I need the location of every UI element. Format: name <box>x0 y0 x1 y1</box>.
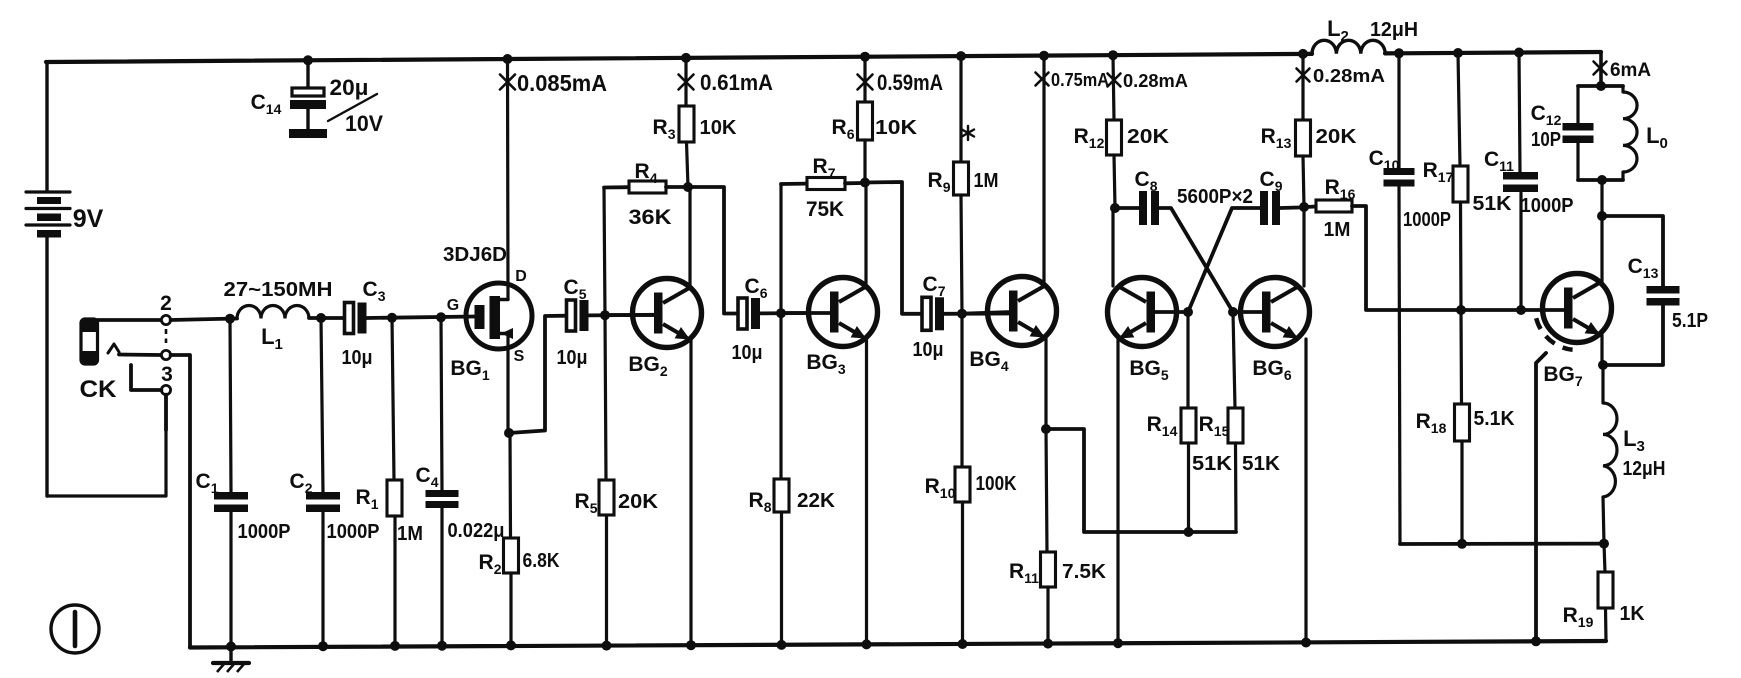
transistor BG4 <box>988 277 1057 346</box>
capacitor C9 5600P <box>1260 191 1268 225</box>
resistor R12 20K <box>1107 55 1122 208</box>
svg-text:1000P: 1000P <box>1403 209 1451 231</box>
jack switch spring contact <box>108 344 119 353</box>
FET BG1 3DJ6D symbol <box>466 283 532 349</box>
wire BG1 source down <box>506 334 509 433</box>
junction L1 left / C1 <box>225 314 235 324</box>
svg-text:10K: 10K <box>700 117 738 139</box>
wire BG4 collector lead <box>1042 56 1045 285</box>
svg-text:5.1P: 5.1P <box>1672 310 1708 332</box>
capacitor C11 1000P <box>1503 53 1538 311</box>
resistor R14 51K <box>1181 312 1196 532</box>
svg-text:10μ: 10μ <box>913 339 944 361</box>
junction collector / C13 top <box>1597 211 1607 221</box>
wire C8 right cross-couple to BG6 base <box>1159 208 1233 312</box>
capacitor C8 5600P <box>1139 191 1147 225</box>
junction BG4 base node <box>957 309 967 319</box>
wire BG2 base lead <box>610 313 656 317</box>
wire BG2 emitter to ground <box>689 340 692 645</box>
wire BG5 emitter to ground <box>1116 339 1119 643</box>
wire BG3 base lead <box>786 311 832 315</box>
junction BG4 emitter / R11 <box>1041 424 1051 434</box>
svg-text:10V: 10V <box>345 111 383 136</box>
resistor R3 10K <box>679 58 694 187</box>
wire emitter return bus <box>1400 542 1604 546</box>
wire top supply rail (right section) <box>1385 52 1601 53</box>
resistor R19 1K <box>1598 544 1613 641</box>
svg-text:10K: 10K <box>875 117 918 139</box>
wire BG4 base lead <box>967 312 1011 314</box>
svg-text:0.28mA: 0.28mA <box>1123 71 1188 91</box>
svg-text:9V: 9V <box>73 205 104 233</box>
wire C13 bottom to emitter node <box>1606 305 1663 365</box>
svg-text:0.61mA: 0.61mA <box>700 70 773 95</box>
resistor R7 75K <box>781 178 863 190</box>
wire middle contact to ground rail <box>171 355 190 648</box>
transistor BG5 (mirrored) <box>1108 278 1177 347</box>
junction BG6 base / R15 / C8 coupling <box>1228 307 1238 317</box>
capacitor C3 10u electrolytic <box>345 303 354 334</box>
current mark x0.59mA <box>858 75 873 90</box>
wire C9 left cross-couple to BG5 base <box>1188 208 1260 312</box>
svg-text:7.5K: 7.5K <box>1062 561 1107 583</box>
junction R10 ground <box>958 639 968 649</box>
junction BG7 emitter / C13 / L3 <box>1598 360 1608 370</box>
junction R11 ground <box>1043 639 1053 649</box>
wire BG4 emitter to R14/R15 return <box>1046 429 1236 532</box>
junction case ground <box>1531 636 1541 646</box>
junction top rail / BG4 collector <box>1039 51 1049 61</box>
wire BG2 collector lead <box>688 187 691 287</box>
svg-text:1M: 1M <box>397 523 423 545</box>
svg-text:1000P: 1000P <box>1521 195 1574 217</box>
wire BG3 collector lead <box>864 183 867 287</box>
junction R2 ground <box>506 640 516 650</box>
svg-text:51K: 51K <box>1242 453 1281 475</box>
svg-text:5600P×2: 5600P×2 <box>1177 186 1253 208</box>
junction top rail / R9 <box>956 51 966 61</box>
wire node 2 to L1 <box>171 319 237 321</box>
resistor R9 1M <box>954 56 969 314</box>
svg-text:1M: 1M <box>974 170 999 192</box>
svg-text:51K: 51K <box>1192 453 1233 475</box>
capacitor C14 20u/10V electrolytic <box>289 60 327 138</box>
svg-text:20K: 20K <box>618 491 659 513</box>
wire BG6 emitter to ground <box>1304 339 1307 642</box>
wire C6 to BG3 base <box>761 311 811 315</box>
junction L1 right / C2 <box>316 313 326 323</box>
current mark x0.75mA <box>1036 73 1049 86</box>
capacitor C7 10u electrolytic <box>922 297 931 330</box>
svg-text:1K: 1K <box>1620 603 1646 625</box>
junction C3 / R1 <box>387 313 397 323</box>
wire base node up to R7 <box>779 184 782 313</box>
resistor R1 1M <box>387 318 402 646</box>
svg-text:51K: 51K <box>1473 193 1513 215</box>
inductor L2 12uH on top rail <box>1312 40 1385 54</box>
resistor R11 7.5K <box>1041 429 1056 644</box>
capacitor C10 1000P <box>1384 53 1415 544</box>
junction base row / C11 <box>1516 305 1526 315</box>
wire top rail corner into tank <box>1599 52 1603 86</box>
junction L3 / R19 / emitter bus <box>1599 539 1609 549</box>
junction tank top <box>1596 81 1606 91</box>
figure number circled 1 <box>51 605 99 653</box>
svg-text:75K: 75K <box>806 198 844 221</box>
svg-text:3DJ6D: 3DJ6D <box>443 244 507 266</box>
junction gate / C4 <box>436 312 446 322</box>
junction BG5 base / R14 / C9 coupling <box>1183 307 1193 317</box>
resistor R17 51K <box>1453 53 1468 310</box>
junction R8 ground <box>777 640 787 650</box>
wire to C13 top <box>1602 216 1663 286</box>
junction BG3 emitter ground <box>862 639 872 649</box>
wire C7 to BG4 base <box>945 312 1011 316</box>
junction R12 / C8 / BG5 collector <box>1110 203 1120 213</box>
wire jack tip to node 2 <box>91 318 161 322</box>
svg-text:0.59mA: 0.59mA <box>877 70 943 95</box>
inductor L1 27~150MH <box>237 306 309 319</box>
svg-text:0.022μ: 0.022μ <box>448 520 505 542</box>
wire L1 to C3 <box>309 316 346 320</box>
wire BG2 collector to C6 <box>688 187 738 314</box>
wire R12 node to C8 <box>1115 206 1139 210</box>
microphone jack CK plug body <box>81 319 98 364</box>
wire BG4 emitter down <box>1044 338 1047 429</box>
current mark x0.61mA <box>679 75 694 90</box>
wire BG5 base lead <box>1153 310 1183 314</box>
junction C4 ground <box>437 641 447 651</box>
node 3 contact circle <box>161 385 170 394</box>
wire C9 right to R13 node <box>1280 206 1299 210</box>
wire BG6 collector lead <box>1302 207 1305 286</box>
svg-text:10μ: 10μ <box>732 342 763 364</box>
wire BG3 collector to C7 <box>865 182 922 314</box>
wire tank bottom to collector node <box>1600 180 1603 216</box>
wire tank top bracket <box>1578 84 1623 88</box>
junction top rail / R6 <box>860 52 870 62</box>
wire BG7 emitter down <box>1600 335 1603 364</box>
junction top rail / R13 / L2 <box>1298 49 1308 59</box>
current mark x0.28mA (R13) <box>1297 69 1310 82</box>
svg-text:20K: 20K <box>1316 126 1358 148</box>
capacitor C1 1000P <box>214 319 248 646</box>
wire tank bottom bracket <box>1578 178 1623 182</box>
resistor R10 100K <box>955 314 970 644</box>
svg-text:6mA: 6mA <box>1610 60 1651 81</box>
wire top supply rail (left section) <box>46 54 1312 62</box>
wire node 3 down to battery return <box>164 395 168 430</box>
svg-text:3: 3 <box>161 363 173 386</box>
svg-text:10μ: 10μ <box>557 347 588 369</box>
wire battery negative return to node 3 <box>47 394 166 496</box>
svg-text:D: D <box>515 268 527 285</box>
junction BG2 collector node <box>683 182 693 192</box>
capacitor C5 10u electrolytic <box>567 300 576 331</box>
wire BG5 collector lead <box>1111 208 1114 286</box>
switch linkage dashes <box>165 329 168 343</box>
junction BG5 emitter ground <box>1113 638 1123 648</box>
resistor R5 20K <box>599 315 614 645</box>
inductor L3 12uH <box>1603 365 1617 544</box>
wire BG1 drain from rail <box>506 59 510 299</box>
svg-text:0.28mA: 0.28mA <box>1313 66 1385 86</box>
wire C3 to BG1 gate <box>367 317 476 319</box>
current mark x0.28mA (R12) <box>1108 74 1121 87</box>
current mark x6mA <box>1594 62 1607 75</box>
junction top rail / C10 <box>1394 48 1404 58</box>
wire BG7 case to ground <box>1536 353 1546 641</box>
svg-text:2: 2 <box>160 292 172 315</box>
junction tank bottom <box>1597 175 1607 185</box>
wire C5 to BG2 base <box>589 313 655 317</box>
wire R16 to BG7 base row <box>1352 206 1564 310</box>
transistor BG6 <box>1241 278 1310 347</box>
svg-text:1000P: 1000P <box>238 521 291 543</box>
resistor R13 20K <box>1296 54 1311 207</box>
junction R18 / emitter return bus <box>1457 539 1467 549</box>
capacitor C2 1000P <box>306 318 340 646</box>
svg-text:0.085mA: 0.085mA <box>517 70 607 96</box>
svg-text:CK: CK <box>80 376 118 403</box>
junction source / R2 / C5 link <box>504 428 514 438</box>
transistor BG7 <box>1543 274 1612 343</box>
svg-text:12μH: 12μH <box>1370 19 1418 41</box>
resistor R6 10K <box>858 57 873 182</box>
node 2 contact circle <box>161 315 170 324</box>
resistor R4 36K <box>604 181 686 193</box>
wire bottom ground rail <box>190 641 1606 648</box>
svg-text:6.8K: 6.8K <box>523 550 560 572</box>
wire spring contact to middle node <box>119 353 161 357</box>
svg-text:22K: 22K <box>797 490 836 512</box>
svg-text:1000P: 1000P <box>327 521 380 543</box>
junction C1 ground <box>226 642 236 652</box>
junction R13 / C9 / BG6 collector / R16 <box>1299 202 1309 212</box>
junction BG3 base node <box>776 308 786 318</box>
inductor L0 <box>1623 86 1637 180</box>
svg-text:5.1K: 5.1K <box>1474 408 1516 430</box>
wire base node up to R4 <box>604 188 605 315</box>
junction top rail / R17 <box>1453 48 1463 58</box>
FET BG1 source arrow <box>501 328 513 339</box>
junction top rail / R12 <box>1108 50 1118 60</box>
resistor R16 1M <box>1306 200 1352 212</box>
junction R5 ground <box>602 641 612 651</box>
resistor R15 51K <box>1228 312 1243 532</box>
BG7 dashed arc (case) <box>1536 318 1572 350</box>
resistor R2 6.8K <box>504 433 519 645</box>
capacitor C12 10P <box>1563 86 1594 180</box>
capacitor C6 10u electrolytic <box>738 298 747 329</box>
resistor R8 22K <box>774 313 789 645</box>
svg-text:0.75mA: 0.75mA <box>1051 70 1109 90</box>
junction R14 bottom / emitter return <box>1184 527 1194 537</box>
junction top rail / BG1 drain <box>503 54 513 64</box>
wire source to C5 coupling <box>509 316 568 433</box>
transistor BG3 <box>809 278 878 347</box>
svg-text:10μ: 10μ <box>342 347 373 369</box>
resistor R18 5.1K <box>1455 310 1470 544</box>
svg-text:100K: 100K <box>976 473 1017 495</box>
wire BG3 emitter to ground <box>865 339 868 644</box>
junction C2 ground <box>318 641 328 651</box>
transistor BG2 <box>633 279 702 348</box>
svg-text:1M: 1M <box>1324 219 1351 241</box>
junction BG2 base node <box>600 310 610 320</box>
svg-text:S: S <box>514 348 525 365</box>
junction BG2 emitter ground <box>686 640 696 650</box>
battery B1 9V <box>26 62 70 496</box>
svg-text:36K: 36K <box>629 206 672 229</box>
wire node 3 stub contact <box>131 365 161 390</box>
junction top rail / C11 <box>1514 48 1524 58</box>
capacitor C4 0.022u <box>426 317 459 645</box>
svg-text:20K: 20K <box>1127 126 1170 148</box>
adjustment asterisk mark <box>962 126 974 140</box>
junction BG6 emitter ground <box>1301 638 1311 648</box>
svg-text:10P: 10P <box>1531 129 1561 151</box>
junction base row / R17-R18 divider <box>1456 305 1466 315</box>
svg-text:27~150MH: 27~150MH <box>224 279 333 301</box>
svg-text:G: G <box>447 297 459 314</box>
wire BG7 collector lead <box>1600 216 1603 285</box>
svg-text:12μH: 12μH <box>1623 458 1666 480</box>
wire BG6 base lead <box>1238 310 1264 314</box>
junction top rail / C14 <box>303 55 313 65</box>
svg-text:20μ: 20μ <box>330 75 369 100</box>
middle switch contact circle <box>161 350 170 359</box>
current mark x0.085mA <box>500 75 515 90</box>
ground symbol <box>213 647 249 673</box>
junction R1 ground <box>390 641 400 651</box>
junction top rail / R3 <box>681 53 691 63</box>
junction BG3 collector node <box>860 178 870 188</box>
capacitor C13 5.1P <box>1647 286 1680 294</box>
